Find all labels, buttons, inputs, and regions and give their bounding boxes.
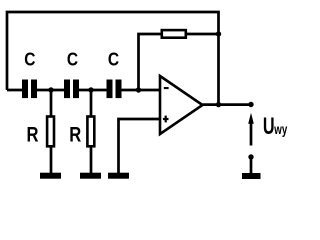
svg-text:C: C (67, 48, 78, 69)
svg-text:U: U (263, 113, 275, 140)
svg-text:C: C (24, 48, 35, 69)
svg-text:C: C (108, 48, 119, 69)
svg-text:R: R (69, 123, 81, 147)
svg-text:wy: wy (274, 122, 288, 137)
svg-text:R: R (27, 123, 39, 147)
